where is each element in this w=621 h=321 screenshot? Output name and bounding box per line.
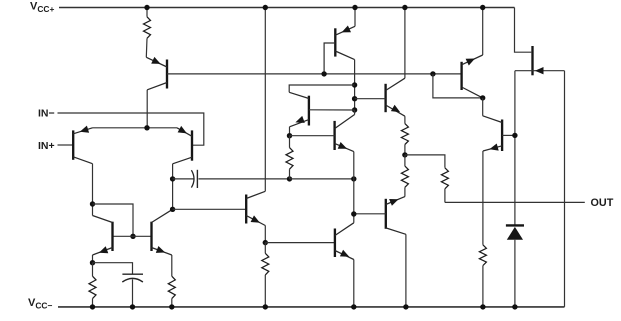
node Q10 emitter / Q11 base xyxy=(287,133,292,138)
wire Q12 collector to VCC+ xyxy=(404,8,406,79)
svg-text:OUT: OUT xyxy=(591,197,614,209)
transistor Q15 xyxy=(531,46,533,75)
transistor Q9 xyxy=(385,199,387,229)
VCC+ rail xyxy=(59,7,515,9)
wire mirror base rail xyxy=(113,235,152,237)
wire Q8 base xyxy=(265,242,335,244)
node R6/R7 junction xyxy=(402,152,407,157)
node Q13 collector xyxy=(480,95,485,100)
node Q5 collector junction xyxy=(170,207,175,212)
wire Q8 emitter to VCC- xyxy=(353,260,355,307)
resistor R1 xyxy=(146,8,148,17)
transistor Q11 xyxy=(333,121,335,150)
transistor Q4 (mirror left) xyxy=(111,222,113,251)
resistor R7 xyxy=(404,155,406,166)
transistor Q12 xyxy=(384,84,386,112)
node Q14 base on vertical xyxy=(512,133,517,138)
wire Q15 source down xyxy=(514,71,516,225)
transistor Q10 xyxy=(308,96,310,126)
wire Q7 collector chain xyxy=(354,60,356,110)
node bias line / Q13 hook xyxy=(430,71,435,76)
node Q3 collector / C1 xyxy=(170,176,175,181)
node input pair common emitters xyxy=(144,125,149,130)
wire Q2 collector down xyxy=(92,164,94,216)
resistor R4 xyxy=(264,243,266,254)
wire C1 left xyxy=(173,178,194,180)
node Q10 base junction xyxy=(352,107,357,112)
node hook junction xyxy=(352,82,357,87)
node Q8 collector junction xyxy=(351,211,356,216)
wire Q11 base xyxy=(290,135,335,137)
wire cap line to Q11 emitter xyxy=(290,178,354,180)
svg-text:VCC−: VCC− xyxy=(28,297,52,311)
wire Q14 base xyxy=(502,134,515,136)
capacitor C1 xyxy=(191,170,194,187)
transistor Q7 xyxy=(354,8,356,27)
node VCC- junctions xyxy=(90,304,95,309)
node Q12 base junction xyxy=(352,96,357,101)
wire Q11 emitter down xyxy=(353,152,355,214)
wire input pair emitter rail xyxy=(93,127,178,129)
node R5 bottom xyxy=(287,176,292,181)
wire Q14 emitter down xyxy=(482,151,484,245)
node Q2 collector junction xyxy=(90,201,95,206)
capacitor C2 xyxy=(122,273,143,275)
transistor Q1 xyxy=(166,60,168,89)
transistor Q5 (mirror right) xyxy=(150,222,152,251)
wire Q6 base xyxy=(173,208,247,210)
wire Q1 base bias line xyxy=(167,73,462,75)
wire Q14 collector xyxy=(482,98,484,116)
wire IN+ input xyxy=(58,144,74,146)
wire Q9 collector to VCC- xyxy=(405,234,407,307)
svg-text:IN−: IN− xyxy=(38,107,55,119)
wire Q13 base-collector hook xyxy=(433,74,483,98)
node Q4 emitter junction xyxy=(90,260,95,265)
wire Q9 base xyxy=(354,213,386,215)
wire C1 right xyxy=(199,178,290,180)
wire Q3 collector down xyxy=(172,164,174,210)
transistor Q3 (IN- input) xyxy=(191,130,193,160)
wire IN- input xyxy=(58,113,204,145)
wire Q13 emitter to VCC+ xyxy=(482,8,484,56)
node Q7 base on bias line xyxy=(321,71,326,76)
wire R8 top xyxy=(405,155,445,168)
wire Q1 collector to input pair node xyxy=(146,90,148,128)
node Q6 emitter xyxy=(263,240,268,245)
wire VCC+ rail corner to Q15 gate xyxy=(515,8,532,53)
svg-text:IN+: IN+ xyxy=(38,140,55,152)
resistor R5 xyxy=(289,136,291,148)
wire Q6 collector to VCC+ xyxy=(264,8,266,192)
wire Q10 base xyxy=(309,109,355,111)
wire Q10 emitter down xyxy=(289,127,291,136)
wire Q6 emitter down xyxy=(264,226,266,243)
node Q11 emitter line xyxy=(351,176,356,181)
diode D1 xyxy=(506,224,524,226)
transistor Q8 xyxy=(334,229,336,258)
transistor Q13 xyxy=(460,62,462,90)
transistor Q2 (IN+ input) xyxy=(72,130,74,159)
wire Q10 collector hook xyxy=(289,85,354,92)
svg-text:VCC+: VCC+ xyxy=(30,1,54,15)
node VCC+ junctions xyxy=(144,5,149,10)
resistor R3 xyxy=(168,276,175,298)
resistor R2 xyxy=(92,263,94,277)
resistor R8 xyxy=(441,168,448,189)
wire Q15 drain to VCC- rail end xyxy=(564,71,566,307)
wire Q12 base xyxy=(355,98,386,100)
wire OUT line xyxy=(445,201,585,203)
resistor R6 xyxy=(404,116,406,123)
VCC- rail xyxy=(58,306,565,308)
transistor Q14 xyxy=(501,120,503,152)
wire mirror base hook xyxy=(93,204,134,236)
wire Q7 base xyxy=(324,43,335,74)
transistor Q6 xyxy=(245,195,247,224)
resistor R9 xyxy=(479,245,486,266)
wire to capacitor C2 xyxy=(93,263,133,275)
node mirror bases xyxy=(130,234,135,239)
